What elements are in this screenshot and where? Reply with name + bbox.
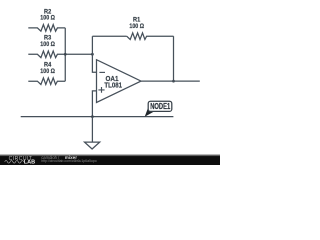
svg-text:100 Ω: 100 Ω <box>40 41 55 48</box>
ground <box>85 142 100 149</box>
junction: output node <box>172 80 175 83</box>
op-amp minus sign <box>99 71 105 73</box>
svg-text:100 Ω: 100 Ω <box>129 23 144 30</box>
wire: ground rail <box>21 116 174 118</box>
resistor R1 <box>127 33 174 40</box>
wire: bus to inverting node <box>65 53 92 55</box>
wire: plus input lead and drop <box>92 91 96 117</box>
node NODE1 box <box>148 101 172 111</box>
wire: feedback vertical to minus input <box>92 36 96 72</box>
svg-text:LAB: LAB <box>24 160 36 165</box>
wire: ground stem <box>91 117 93 142</box>
wire: output <box>141 80 200 82</box>
op-amp plus sign <box>98 87 104 93</box>
svg-text:100 Ω: 100 Ω <box>40 15 55 22</box>
canvas background <box>0 0 220 165</box>
resistor R2 <box>28 25 65 32</box>
junction: bus / R3 <box>64 53 67 56</box>
op-amp OA1 triangle <box>97 60 142 103</box>
svg-text:NODE1: NODE1 <box>150 101 170 111</box>
node NODE1 flag pointer <box>145 106 156 117</box>
svg-text:TL081: TL081 <box>104 83 122 90</box>
wire: feedback top horizontal <box>92 35 126 37</box>
svg-text:http://circuitlab.com/c6b6u1p6: http://circuitlab.com/c6b6u1p6a5upo <box>41 158 97 163</box>
wire: input bus vertical <box>64 28 66 81</box>
wire: feedback right vertical <box>173 36 175 81</box>
svg-text:100 Ω: 100 Ω <box>40 68 55 75</box>
junction: ground rail / plus drop <box>91 115 94 118</box>
resistor R4 <box>28 78 65 85</box>
junction: inverting node <box>91 53 94 56</box>
resistor R3 <box>28 51 65 58</box>
logo sine wave <box>5 160 24 163</box>
